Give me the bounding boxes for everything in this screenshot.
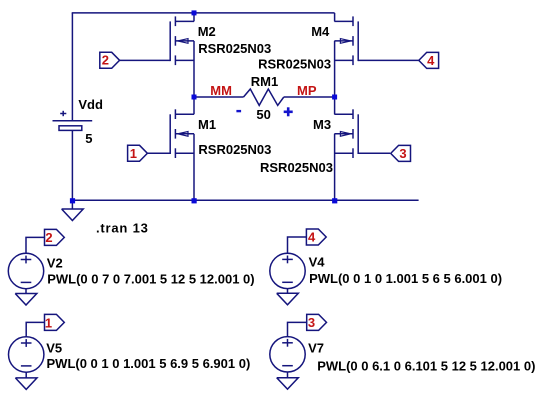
wire V4 to flag	[288, 237, 307, 253]
port flag 4 (to M4 gate)	[419, 52, 439, 68]
wire bottom rail	[72, 199, 418, 201]
ground at rail	[71, 200, 73, 209]
wire V7 to flag	[288, 322, 307, 336]
voltage source V2	[8, 253, 43, 288]
port flag 3 at V7	[307, 314, 327, 330]
ground V4	[287, 289, 289, 294]
node at M2 drain / rail	[192, 10, 197, 15]
wire M4 source to MP	[334, 41, 336, 97]
transistor M4	[334, 16, 358, 65]
svg-text:3: 3	[308, 315, 315, 330]
svg-text:2: 2	[45, 230, 52, 245]
svg-text:PWL(0 0 7 0 7.001 5 12 5 12.00: PWL(0 0 7 0 7.001 5 12 5 12.001 0)	[47, 272, 254, 287]
wire port2 to M2 gate	[120, 59, 171, 61]
wire M3 gate to port3	[358, 152, 390, 154]
wire left branch lower	[71, 130, 73, 200]
resistor RM1	[244, 89, 284, 105]
battery Vdd	[53, 111, 93, 131]
minus mark at resistor	[236, 110, 241, 112]
svg-text:.tran 13: .tran 13	[96, 221, 149, 236]
svg-text:PWL(0 0 1 0 1.001 5 6.9 5 6.90: PWL(0 0 1 0 1.001 5 6.9 5 6.901 0)	[47, 356, 251, 371]
node MM	[192, 95, 197, 100]
transistor M2	[170, 16, 194, 65]
port flag 2 (to M2 gate)	[100, 52, 120, 68]
svg-text:M2: M2	[198, 24, 216, 39]
wire MM to resistor	[194, 96, 244, 98]
ground V5	[25, 372, 27, 378]
svg-text:3: 3	[399, 146, 406, 161]
wire M4 drain	[334, 13, 336, 22]
svg-text:2: 2	[102, 53, 109, 68]
svg-text:MP: MP	[297, 83, 317, 98]
svg-text:RSR025N03: RSR025N03	[198, 41, 271, 56]
wire port1 to M1 gate	[148, 152, 171, 154]
port flag 1 (to M1 gate)	[128, 145, 148, 161]
svg-text:M1: M1	[198, 117, 216, 132]
svg-text:V7: V7	[308, 341, 324, 356]
svg-text:M3: M3	[313, 117, 331, 132]
svg-text:PWL(0 0 1 0 1.001 5 6 5 6.001: PWL(0 0 1 0 1.001 5 6 5 6.001 0)	[309, 271, 502, 286]
plus mark at resistor	[284, 107, 293, 116]
wire V5 to flag	[26, 322, 44, 337]
ground V7	[287, 372, 289, 378]
svg-text:RM1: RM1	[251, 74, 278, 89]
port flag 3 (to M3 gate)	[391, 145, 411, 161]
port flag 2 at V2	[45, 229, 65, 245]
svg-text:V4: V4	[309, 255, 326, 270]
node MP	[332, 95, 337, 100]
svg-text:RSR025N03: RSR025N03	[198, 142, 271, 157]
svg-text:M4: M4	[311, 24, 330, 39]
wire M3 drain	[334, 97, 336, 114]
wire M3 source to rail	[334, 134, 336, 200]
wire M2 drain	[193, 13, 195, 22]
svg-text:MM: MM	[210, 83, 232, 98]
voltage source V4	[270, 253, 305, 288]
svg-text:V5: V5	[46, 341, 62, 356]
svg-text:PWL(0 0 6.1 0 6.101 5 12 5 12.: PWL(0 0 6.1 0 6.101 5 12 5 12.001 0)	[317, 358, 535, 373]
node Vdd bottom	[70, 198, 75, 203]
svg-text:5: 5	[85, 131, 92, 146]
voltage source V5	[9, 337, 44, 372]
svg-text:50: 50	[256, 107, 270, 122]
svg-text:4: 4	[427, 53, 435, 68]
svg-text:RSR025N03: RSR025N03	[258, 57, 331, 72]
svg-text:1: 1	[45, 316, 52, 331]
ground V2	[25, 289, 27, 294]
node M1 source / rail	[192, 198, 197, 203]
svg-text:4: 4	[308, 230, 316, 245]
port flag 4 at V4	[306, 229, 326, 245]
wire top rail	[72, 12, 335, 14]
node M3 source / rail	[332, 198, 337, 203]
wire left branch upper	[71, 13, 73, 121]
transistor M3	[334, 109, 358, 158]
svg-text:Vdd: Vdd	[78, 97, 103, 112]
svg-text:1: 1	[130, 146, 137, 161]
wire V2 to flag	[26, 237, 45, 253]
wire resistor to MP	[284, 96, 335, 98]
wire M1 source to rail	[193, 134, 195, 200]
wire M1 drain	[193, 97, 195, 114]
transistor M1	[170, 109, 194, 158]
voltage source V7	[270, 337, 305, 372]
wire M2 source to MM	[193, 41, 195, 97]
port flag 1 at V5	[45, 314, 65, 330]
svg-text:RSR025N03: RSR025N03	[260, 160, 333, 175]
svg-text:V2: V2	[47, 255, 63, 270]
wire M4 gate to port4	[358, 59, 419, 61]
